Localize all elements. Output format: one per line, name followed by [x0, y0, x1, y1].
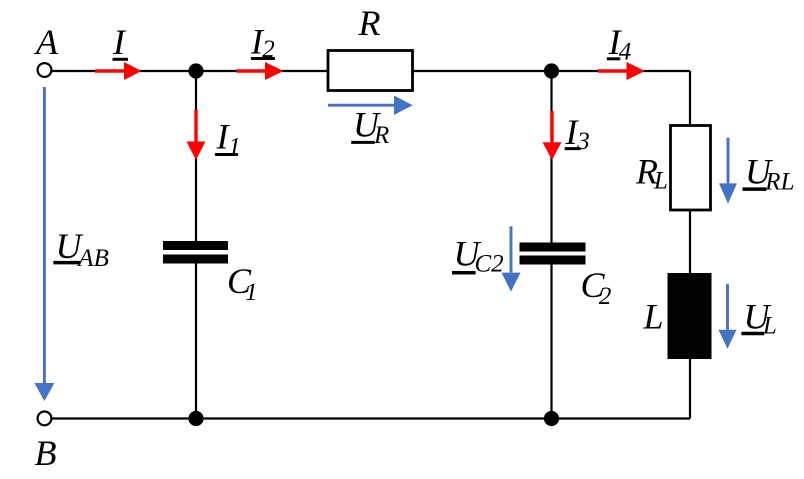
svg-text:2: 2 [599, 283, 612, 310]
svg-text:RL: RL [764, 169, 794, 196]
svg-text:R: R [358, 3, 381, 43]
svg-text:1: 1 [245, 279, 258, 306]
svg-text:C2: C2 [475, 251, 504, 278]
svg-text:I: I [112, 22, 127, 62]
svg-text:B: B [35, 433, 57, 473]
svg-text:L: L [653, 168, 668, 195]
svg-text:R: R [373, 122, 389, 149]
svg-text:L: L [643, 297, 664, 337]
svg-text:1: 1 [228, 134, 241, 161]
svg-text:L: L [762, 313, 777, 340]
svg-text:A: A [34, 22, 59, 62]
svg-text:AB: AB [76, 245, 109, 272]
svg-text:4: 4 [619, 39, 632, 66]
svg-text:3: 3 [576, 128, 590, 155]
